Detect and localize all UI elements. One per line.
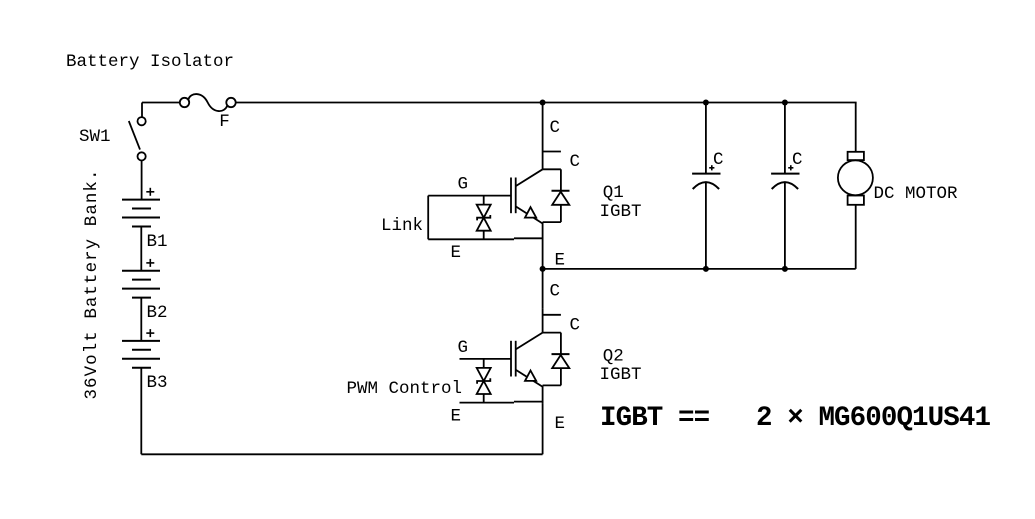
svg-text:B3: B3 <box>147 373 168 393</box>
svg-text:C: C <box>570 315 581 335</box>
svg-text:Q1: Q1 <box>603 183 624 203</box>
svg-text:E: E <box>555 414 566 434</box>
svg-text:F: F <box>219 112 230 132</box>
svg-text:E: E <box>451 243 462 263</box>
svg-text:B1: B1 <box>147 232 168 252</box>
svg-text:E: E <box>451 406 462 426</box>
svg-text:B2: B2 <box>147 303 168 323</box>
svg-text:Link: Link <box>381 216 423 236</box>
svg-text:PWM Control: PWM Control <box>347 379 463 399</box>
svg-text:C: C <box>792 150 803 170</box>
svg-text:C: C <box>570 152 581 172</box>
svg-text:SW1: SW1 <box>79 127 111 147</box>
svg-text:IGBT: IGBT <box>600 365 642 385</box>
svg-text:Q2: Q2 <box>603 346 624 366</box>
svg-text:C: C <box>550 118 561 138</box>
svg-text:IGBT == 2 × MG600Q1US41: IGBT == 2 × MG600Q1US41 <box>600 403 990 434</box>
svg-text:C: C <box>550 281 561 301</box>
svg-text:DC MOTOR: DC MOTOR <box>874 184 959 204</box>
svg-text:Battery Isolator: Battery Isolator <box>66 52 234 72</box>
svg-text:C: C <box>713 150 724 170</box>
svg-text:IGBT: IGBT <box>600 202 642 222</box>
svg-text:G: G <box>458 338 469 358</box>
svg-text:36Volt Battery Bank.: 36Volt Battery Bank. <box>82 168 102 399</box>
svg-text:E: E <box>555 251 566 271</box>
svg-text:G: G <box>458 175 469 195</box>
